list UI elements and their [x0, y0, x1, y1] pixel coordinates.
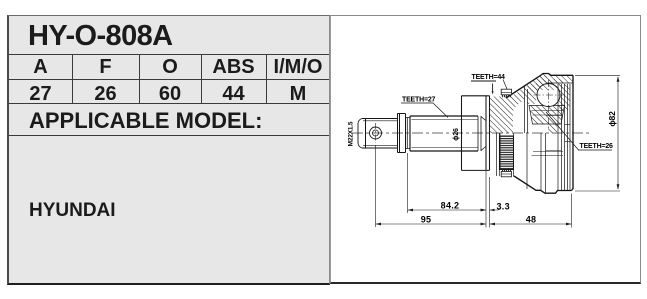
wedge right of ball hatch [552, 84, 570, 110]
svg-text:TEETH=26: TEETH=26 [580, 143, 614, 150]
spec table [7, 15, 330, 285]
phi82 bottom ext [575, 190, 620, 192]
phi82 top ext [575, 74, 620, 76]
dim line 95 [376, 223, 487, 225]
threaded stub left face [358, 119, 362, 149]
ext line from hole center [375, 145, 377, 227]
bell right face [572, 75, 574, 190]
arrowheads 3.3 [481, 209, 486, 212]
ext lines flange faces [486, 171, 490, 228]
svg-text:ϕ26: ϕ26 [453, 128, 460, 141]
arrowheads 95 [376, 223, 382, 226]
flange disk [462, 96, 490, 171]
arrowheads 48 [490, 223, 496, 226]
ring upper teeth [502, 95, 512, 97]
cage edges [525, 86, 528, 133]
svg-text:ϕ82: ϕ82 [607, 111, 617, 127]
phi82 dim line [617, 77, 619, 189]
splined shaft outline [410, 116, 478, 151]
ring lower cap [501, 172, 511, 177]
dimensions [376, 75, 621, 227]
ball of CV joint [537, 84, 560, 107]
centerline main axis [352, 132, 590, 134]
inner race mid lines [532, 111, 564, 116]
upper-left wall hatch [490, 74, 547, 134]
ring side verticals [500, 133, 514, 177]
bell lower profile [514, 176, 572, 193]
inner race below ball hatch [529, 106, 565, 125]
race lower strip hatch [548, 124, 557, 133]
ext line bell right [571, 194, 573, 228]
shoulder cylinder [398, 114, 406, 153]
inner spline verticals (TEETH=26) [558, 84, 570, 191]
inner bore edges [546, 116, 562, 151]
spline root lines [412, 120, 479, 148]
top band lower edge [547, 82, 573, 84]
counterbore lip lines [565, 125, 570, 142]
bump interior hatch [539, 74, 573, 84]
arrowheads 84.2 [408, 209, 414, 212]
ABS tone ring [500, 89, 514, 177]
svg-text:48: 48 [526, 215, 537, 225]
boot groove verticals lower half [527, 133, 546, 193]
arrowhead teeth44 leader [492, 91, 494, 94]
bell housing hatched section (upper half) [490, 74, 573, 194]
svg-text:M22X1.5: M22X1.5 [348, 121, 355, 146]
dim line 84.2 [408, 209, 487, 211]
bell outline upper profile [506, 74, 573, 99]
svg-text:TEETH=27: TEETH=27 [402, 97, 436, 104]
svg-text:TEETH=44: TEETH=44 [472, 74, 506, 81]
drawing panel [330, 15, 641, 284]
hole vertical centerline [375, 123, 377, 143]
svg-text:3.3: 3.3 [497, 202, 510, 212]
ball centerlines [534, 80, 564, 128]
cotter pin hole [370, 127, 382, 139]
spline end runout [478, 116, 481, 151]
dim line 48 [490, 223, 572, 225]
svg-text:84.2: 84.2 [441, 201, 460, 211]
labels [348, 74, 618, 225]
neck groove [406, 118, 411, 149]
dim line 3.3 leader [490, 208, 502, 211]
hatch wedge left of ball [528, 84, 540, 104]
ring upper section cap [501, 89, 511, 95]
ext line shaft left [407, 153, 409, 213]
ring lower teeth [502, 170, 513, 172]
ring lower striped band (external view) [500, 136, 514, 170]
crescent hatch over ball top [536, 79, 563, 90]
ring hub verticals [497, 133, 500, 176]
arrowheads phi82 [617, 76, 620, 82]
lower race mirror lines [532, 152, 564, 156]
threaded stub body [362, 119, 398, 149]
spline end chamfer [481, 117, 486, 151]
svg-text:95: 95 [421, 215, 432, 225]
